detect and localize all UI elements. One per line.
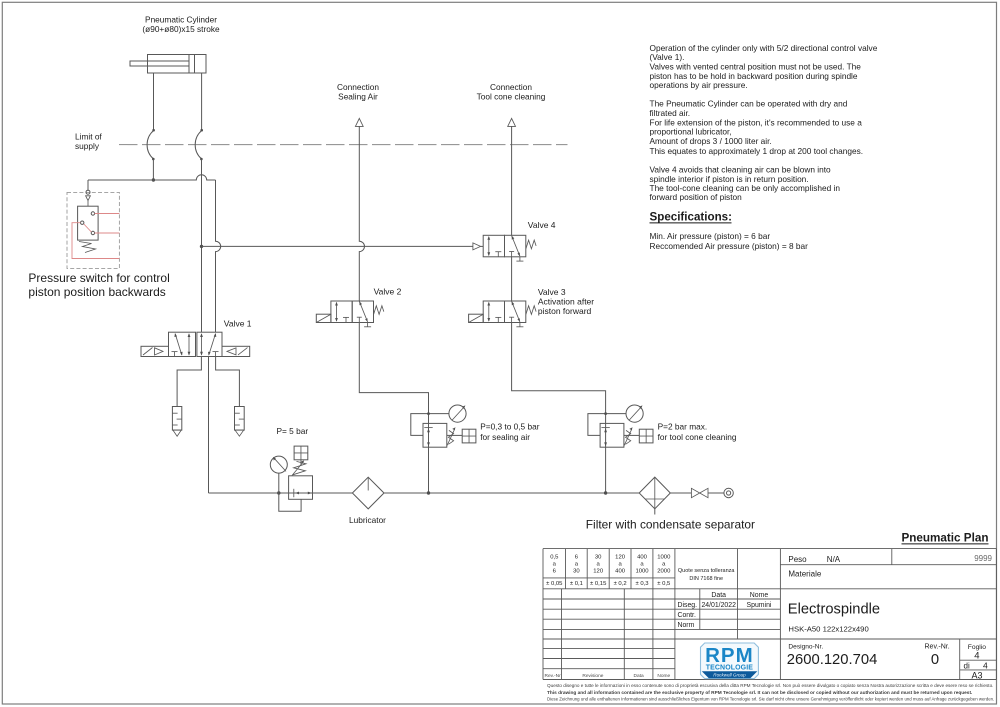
- svg-text:Materiale: Materiale: [788, 570, 821, 579]
- wire left port to junction: [152, 159, 154, 180]
- pressure switch red switch arm: [84, 224, 92, 232]
- svg-text:Peso: Peso: [788, 555, 807, 564]
- valve V1 right pilot box: [222, 346, 250, 356]
- svg-text:piston position backwards: piston position backwards: [28, 285, 165, 299]
- svg-text:30: 30: [573, 568, 580, 574]
- svg-text:Valve 4: Valve 4: [528, 220, 556, 230]
- svg-text:a: a: [618, 562, 622, 568]
- svg-text:Lubricator: Lubricator: [349, 515, 386, 525]
- pressure switch spring zigzag: [79, 242, 96, 253]
- svg-text:Pneumatic Cylinder: Pneumatic Cylinder: [145, 15, 217, 25]
- RPM logo: [701, 643, 759, 679]
- wire V1 port3 to right silencer: [216, 357, 240, 407]
- svg-text:120: 120: [593, 568, 604, 574]
- disconnect arc left: [147, 129, 155, 160]
- node pilot branch junction: [200, 245, 203, 248]
- svg-text:P= 5 bar: P= 5 bar: [277, 426, 309, 436]
- specifications heading: [650, 210, 732, 223]
- node main line sealing riser junction: [427, 491, 430, 494]
- svg-text:N/A: N/A: [827, 555, 841, 564]
- svg-text:Quote senza tolleranza: Quote senza tolleranza: [678, 568, 736, 574]
- pressure regulator sealing air assembly: [411, 405, 476, 447]
- svg-text:± 0,2: ± 0,2: [614, 581, 627, 587]
- wire drop to pressure switch: [87, 180, 89, 190]
- supply coupling: [724, 488, 733, 497]
- svg-text:Electrospindle: Electrospindle: [788, 601, 880, 617]
- svg-text:supply: supply: [75, 141, 100, 151]
- svg-text:400: 400: [637, 555, 648, 561]
- connection tool cone triangle: [508, 118, 516, 126]
- svg-text:0: 0: [931, 652, 939, 668]
- svg-text:6: 6: [553, 568, 557, 574]
- svg-text:Filter with condensate separat: Filter with condensate separator: [586, 518, 755, 532]
- valve V1 left cell diagonal: [174, 333, 182, 356]
- disconnect arc right: [195, 129, 203, 160]
- valve V2 solenoid pilot: [316, 314, 331, 322]
- notes text block: [650, 43, 878, 202]
- main supply line segments: [209, 492, 724, 494]
- node main line tool riser junction: [604, 491, 607, 494]
- valve V1 left cell arrow: [188, 333, 191, 356]
- svg-text:P=0,3 to 0,5 bar: P=0,3 to 0,5 bar: [480, 421, 540, 431]
- wire right port down to valve 1: [201, 159, 203, 332]
- svg-text:Rev.-Nr: Rev.-Nr: [545, 673, 562, 679]
- svg-text:2600.120.704: 2600.120.704: [787, 652, 878, 668]
- pressure switch port circle: [86, 190, 90, 194]
- svg-text:Connection: Connection: [337, 82, 379, 92]
- red wire from contact A: [95, 213, 120, 215]
- svg-text:1000: 1000: [635, 568, 649, 574]
- node junction cylinder left line: [152, 178, 155, 181]
- pressure switch dashed enclosure: [67, 192, 119, 268]
- valve V4: [483, 235, 536, 261]
- title block grid: [543, 549, 996, 680]
- valve V1 right cell blocked port T: [213, 352, 219, 357]
- svg-text:Connection: Connection: [490, 82, 532, 92]
- svg-text:for sealing air: for sealing air: [480, 432, 530, 442]
- designo number: [787, 644, 878, 669]
- wire horizontal y180 with jump over x201.5: [88, 175, 216, 180]
- svg-text:a: a: [640, 562, 644, 568]
- svg-text:a: a: [597, 562, 601, 568]
- svg-text:operations by air pressure.: operations by air pressure.: [650, 80, 748, 90]
- svg-text:Sealing Air: Sealing Air: [338, 92, 378, 102]
- lubricator: [352, 477, 384, 509]
- svg-text:Tool cone cleaning: Tool cone cleaning: [477, 92, 546, 102]
- svg-text:Spumini: Spumini: [747, 602, 772, 609]
- svg-text:24/01/2022: 24/01/2022: [701, 602, 736, 609]
- pressure switch contact C: [91, 231, 94, 234]
- node main line gauge junction: [277, 491, 280, 494]
- svg-text:This drawing and all informati: This drawing and all information contain…: [547, 690, 972, 696]
- silencer right: [235, 407, 245, 437]
- valve V1 body: [169, 332, 223, 356]
- red wire from contact B around: [72, 223, 119, 259]
- silencer left: [172, 407, 181, 437]
- foglio cell: [964, 644, 989, 681]
- svg-text:Diseg.: Diseg.: [678, 602, 698, 609]
- svg-text:Contr.: Contr.: [678, 612, 696, 619]
- pressure regulator P5 gauge stem: [278, 473, 280, 493]
- pressure switch body: [78, 206, 99, 240]
- pressure gauge P5: [270, 456, 287, 473]
- svg-text:P=2 bar max.: P=2 bar max.: [658, 421, 708, 431]
- svg-text:HSK-A50 122x122x490: HSK-A50 122x122x490: [788, 625, 868, 634]
- pressure switch stem: [87, 201, 89, 207]
- pressure switch contact B: [81, 221, 84, 224]
- svg-text:Norm: Norm: [678, 622, 695, 629]
- svg-text:TECNOLOGIE: TECNOLOGIE: [706, 665, 754, 672]
- wire cylinder left port down: [153, 73, 155, 130]
- wire valve 4 to valve 3: [511, 257, 513, 301]
- svg-text:120: 120: [615, 555, 626, 561]
- svg-text:± 0,15: ± 0,15: [590, 581, 607, 587]
- svg-text:Designo-Nr.: Designo-Nr.: [788, 644, 823, 651]
- tolerance table texts: [546, 555, 671, 588]
- svg-text:Rockwell Group: Rockwell Group: [713, 673, 746, 678]
- svg-text:Pneumatic Plan: Pneumatic Plan: [901, 532, 988, 545]
- svg-text:Diese Zeichnung und alle entha: Diese Zeichnung und alle enthaltenen Inf…: [547, 697, 994, 702]
- svg-text:Valve 1: Valve 1: [224, 318, 252, 328]
- wire V1 port5 to left silencer: [177, 357, 201, 407]
- disclaimer lines: [547, 683, 994, 702]
- svg-text:Rev.-Nr.: Rev.-Nr.: [925, 644, 950, 651]
- svg-text:a: a: [553, 562, 557, 568]
- connection sealing air triangle: [355, 118, 363, 126]
- valve V1 left pilot box: [141, 346, 169, 356]
- pressure switch contact A: [91, 212, 94, 215]
- quote senza tolleranza cell: [678, 568, 736, 582]
- svg-text:± 0,3: ± 0,3: [635, 581, 649, 587]
- pressure regulator P5 internal arrow: [294, 489, 312, 497]
- wire sealing air down with jump over pilot line: [359, 126, 364, 301]
- svg-text:Min. Air pressure (piston) = 6: Min. Air pressure (piston) = 6 bar: [650, 231, 771, 241]
- wire V3 bottom to tool cone regulator: [512, 323, 606, 494]
- svg-text:Reccomended Air pressure (pist: Reccomended Air pressure (piston) = 8 ba…: [650, 241, 809, 251]
- valve V1 right cell arrow: [200, 333, 203, 356]
- svg-text:di: di: [964, 662, 970, 671]
- svg-text:4: 4: [974, 651, 979, 662]
- svg-text:for tool cone cleaning: for tool cone cleaning: [658, 432, 737, 442]
- svg-text:forward position of piston: forward position of piston: [650, 192, 743, 202]
- svg-text:a: a: [575, 562, 579, 568]
- limit of supply dashed line: [119, 144, 568, 146]
- pressure regulator tool cone assembly: [588, 405, 653, 447]
- svg-text:A3: A3: [971, 671, 982, 681]
- svg-text:6: 6: [575, 555, 579, 561]
- svg-text:(ø90+ø80)x15 stroke: (ø90+ø80)x15 stroke: [142, 24, 220, 34]
- svg-text:Pressure switch for control: Pressure switch for control: [28, 271, 169, 285]
- wire V1 supply port down to main line: [208, 357, 210, 494]
- valve V1 right cell diagonal: [208, 333, 216, 356]
- specifications lines: [650, 231, 809, 251]
- svg-text:Data: Data: [634, 673, 644, 679]
- svg-text:piston forward: piston forward: [538, 306, 592, 316]
- pressure regulator P5 box: [289, 476, 313, 500]
- svg-text:RPM: RPM: [705, 644, 754, 667]
- svg-text:± 0,05: ± 0,05: [546, 581, 563, 587]
- pressure regulator P5 relief loop: [279, 493, 301, 511]
- pressure regulator P5 spring: [292, 460, 306, 475]
- valve V3: [483, 301, 536, 327]
- pressure regulator P5 adjuster grid: [294, 446, 308, 465]
- svg-text:This equates to approximately: This equates to approximately 1 drop at …: [650, 146, 864, 156]
- svg-text:2000: 2000: [657, 568, 671, 574]
- svg-text:Limit of: Limit of: [75, 132, 102, 142]
- wire cylinder right port down: [201, 73, 203, 130]
- wire x215.5 down to valve 1 with jump over pilot line: [216, 180, 221, 332]
- svg-text:Valve 2: Valve 2: [374, 286, 402, 296]
- valve V1 left cell blocked port T: [172, 352, 178, 357]
- svg-text:4: 4: [983, 661, 988, 671]
- pilot wire to valve 4: [202, 245, 473, 247]
- diseg data nome rows: [678, 592, 772, 629]
- pneumatic cylinder: [130, 55, 206, 74]
- svg-text:Nome: Nome: [750, 592, 769, 599]
- svg-text:± 0,5: ± 0,5: [657, 581, 671, 587]
- wire V2 bottom to sealing regulator: [359, 323, 428, 494]
- shutoff valve: [691, 488, 708, 497]
- svg-text:Amount of drops 3 / 1000 liter: Amount of drops 3 / 1000 liter air.: [650, 136, 772, 146]
- svg-text:Valve 3: Valve 3: [538, 287, 566, 297]
- svg-text:± 0,1: ± 0,1: [570, 581, 583, 587]
- svg-text:9999: 9999: [974, 554, 992, 563]
- svg-text:Questo disegno e tutte le info: Questo disegno e tutte le informazioni i…: [547, 683, 993, 688]
- pressure switch pilot triangle: [86, 196, 91, 201]
- svg-text:Specifications:: Specifications:: [650, 210, 732, 223]
- valve V3 solenoid pilot: [469, 314, 484, 322]
- red wire from contact C: [95, 232, 120, 234]
- svg-text:Nome: Nome: [657, 673, 670, 679]
- pneumatic plan title: [901, 532, 988, 545]
- pilot arrow into valve 4: [473, 243, 483, 250]
- svg-text:DIN 7168 fine: DIN 7168 fine: [689, 576, 723, 582]
- svg-text:Revisione: Revisione: [582, 673, 603, 679]
- filter with condensate separator: [639, 477, 670, 514]
- svg-text:30: 30: [595, 555, 602, 561]
- wire tool cone down to valve 4: [511, 126, 513, 235]
- svg-text:1000: 1000: [657, 555, 671, 561]
- svg-text:a: a: [662, 562, 666, 568]
- svg-text:400: 400: [615, 568, 626, 574]
- svg-text:0,5: 0,5: [550, 555, 559, 561]
- svg-text:Data: Data: [711, 592, 726, 599]
- valve V2: [331, 301, 384, 327]
- rev number: [925, 644, 950, 669]
- peso materiale: [788, 554, 992, 579]
- revision row labels: [545, 673, 671, 679]
